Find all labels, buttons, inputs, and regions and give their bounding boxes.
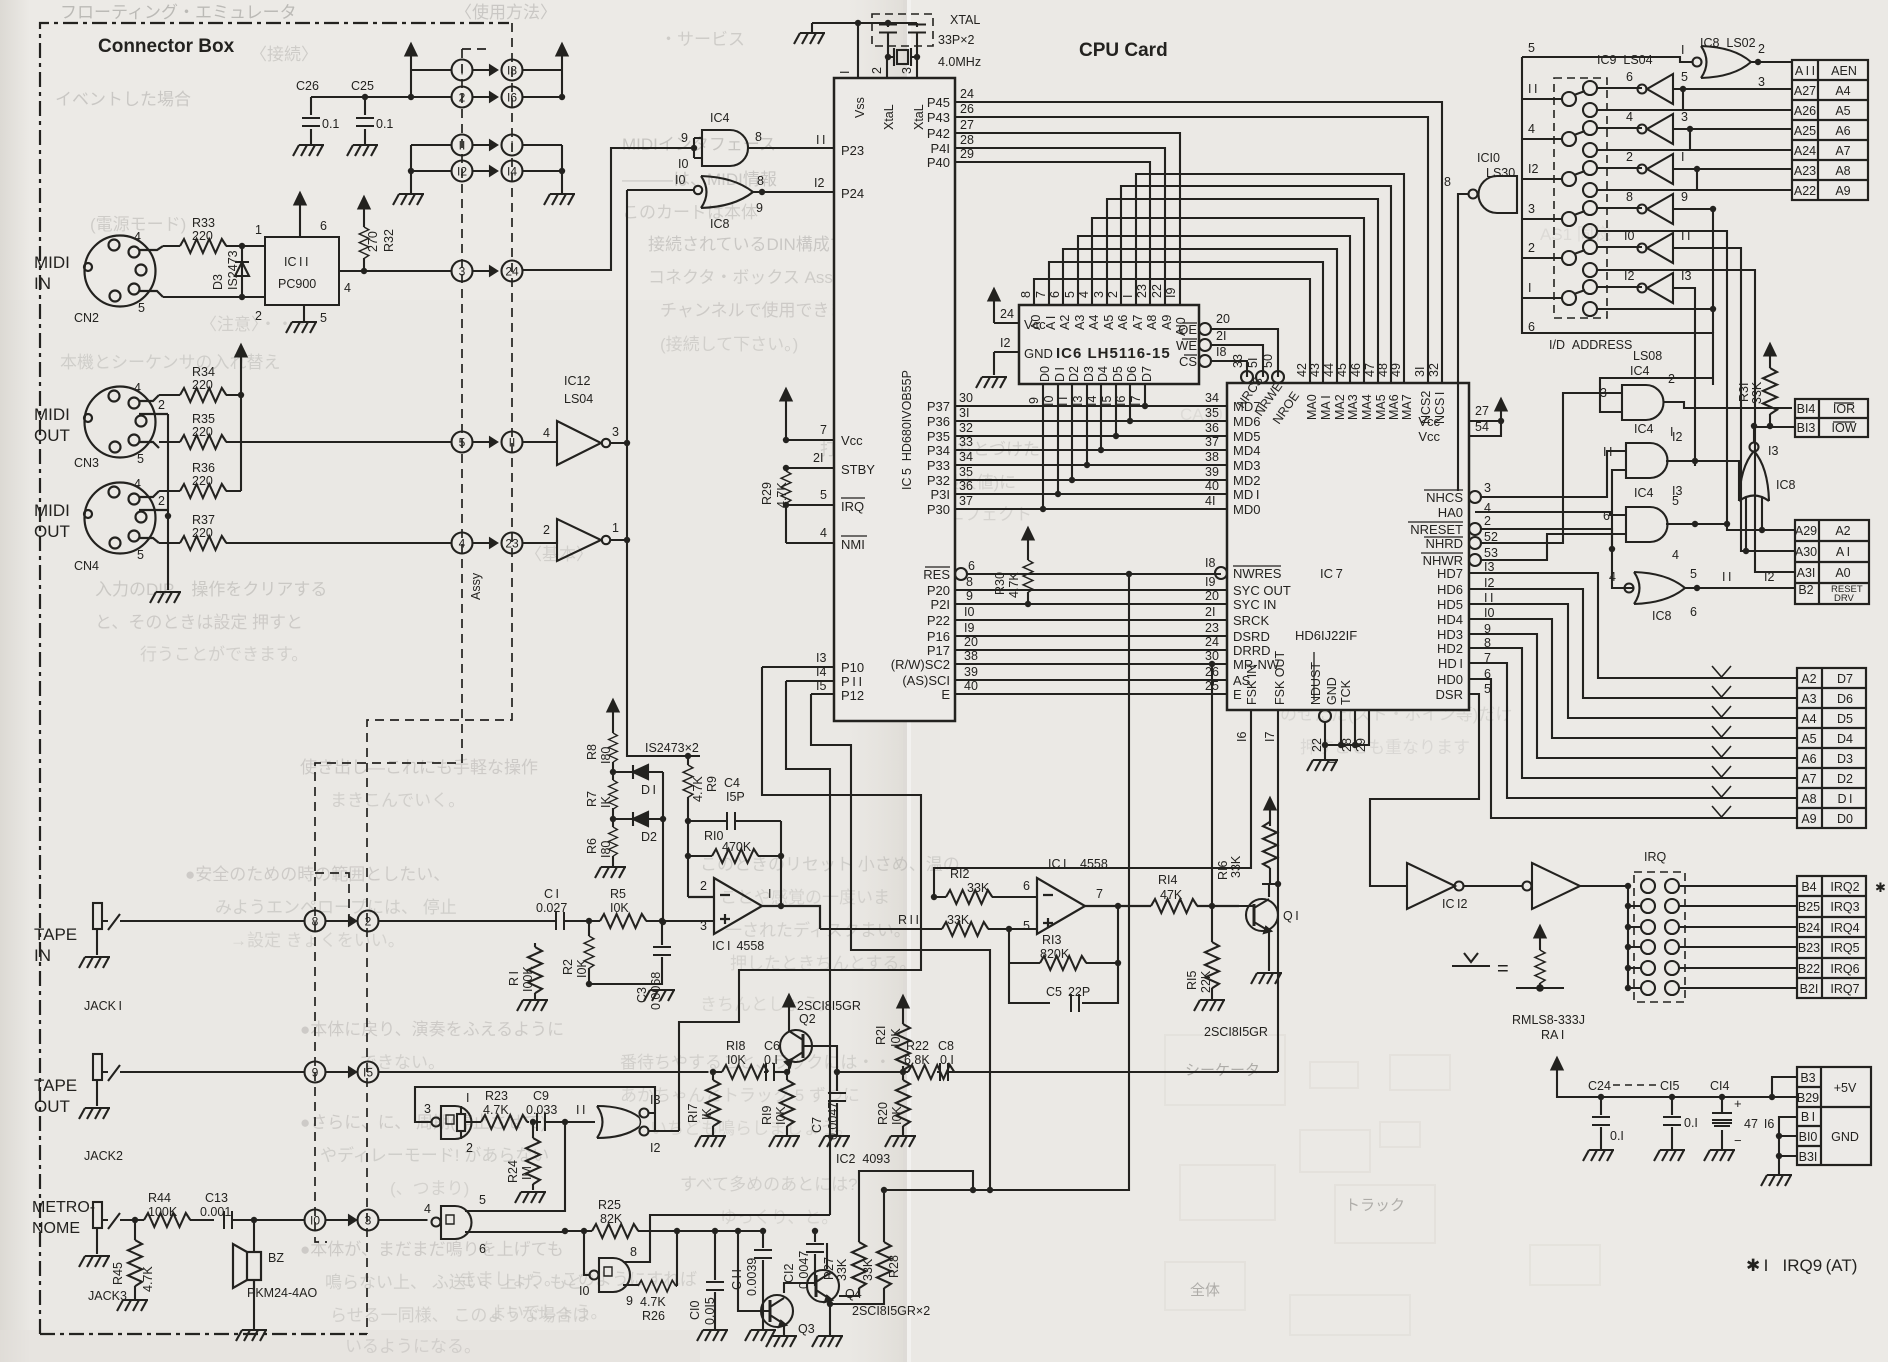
svg-text:3: 3 — [459, 265, 466, 279]
svg-text:33: 33 — [959, 435, 973, 449]
ground — [595, 867, 626, 878]
svg-text:6: 6 — [479, 1242, 486, 1256]
svg-text:NOME: NOME — [32, 1220, 80, 1237]
DIN connector CN4 — [84, 483, 168, 554]
svg-text:DRV: DRV — [1834, 593, 1855, 604]
pair 1-13 — [452, 60, 473, 81]
svg-text:30: 30 — [1205, 649, 1219, 663]
CN3/CN4 pin2 ground wire — [167, 414, 169, 590]
svg-text:P36: P36 — [927, 414, 950, 429]
svg-text:A4: A4 — [1087, 315, 1101, 330]
svg-text:47K: 47K — [1160, 888, 1183, 902]
svg-text:MD I: MD I — [1233, 487, 1259, 502]
svg-text:49: 49 — [1389, 363, 1403, 377]
svg-text:D7: D7 — [1140, 366, 1154, 382]
svg-text:HD5: HD5 — [1437, 597, 1463, 612]
svg-text:20: 20 — [1205, 589, 1219, 603]
svg-text:P45: P45 — [927, 95, 950, 110]
svg-text:OUT: OUT — [34, 522, 70, 541]
svg-text:イベントした場合: イベントした場合 — [55, 90, 191, 109]
svg-text:4: 4 — [344, 281, 351, 295]
svg-text:I3: I3 — [1768, 444, 1778, 458]
svg-text:9: 9 — [681, 131, 688, 145]
svg-text:フローティング・エミュレータ: フローティング・エミュレータ — [60, 3, 297, 22]
IC7 right pins — [1469, 491, 1481, 566]
svg-text:A6: A6 — [1801, 752, 1816, 766]
inverter outputs to table — [1673, 89, 1792, 551]
svg-text:SYC IN: SYC IN — [1233, 597, 1276, 612]
A29/A30/A31 row stubs — [1746, 530, 1795, 572]
svg-text:IOR: IOR — [1833, 402, 1855, 416]
svg-text:9: 9 — [1681, 190, 1688, 204]
svg-text:I: I — [1681, 43, 1684, 57]
table T3 — [1795, 520, 1869, 604]
svg-text:JACK2: JACK2 — [84, 1149, 123, 1163]
svg-text:2: 2 — [1668, 372, 1675, 386]
svg-text:I I: I I — [1056, 397, 1070, 406]
svg-text:A0: A0 — [1029, 315, 1043, 330]
svg-text:A7: A7 — [1801, 772, 1816, 786]
svg-text:39: 39 — [1205, 465, 1219, 479]
svg-text:470K: 470K — [722, 840, 752, 854]
svg-text:23: 23 — [1135, 284, 1149, 298]
svg-text:4.7K: 4.7K — [483, 1103, 509, 1117]
svg-text:IOW: IOW — [1832, 421, 1857, 435]
P42 -> A10 — [955, 133, 1180, 305]
IC7 top bubbles 33 51 50 — [1241, 371, 1284, 383]
svg-text:D0: D0 — [1038, 366, 1052, 382]
cpu bottom control pins — [891, 567, 951, 702]
svg-text:C26: C26 — [296, 79, 319, 93]
svg-text:3: 3 — [1681, 110, 1688, 124]
svg-text:FSK OUT: FSK OUT — [1273, 650, 1287, 705]
svg-text:R29: R29 — [760, 482, 774, 505]
svg-text:R23: R23 — [485, 1089, 508, 1103]
ground — [79, 1256, 110, 1267]
gate C pin5 riser to C9 node — [476, 1122, 565, 1211]
vcc arrow — [989, 289, 1000, 311]
svg-text:MIDI: MIDI — [34, 501, 70, 520]
svg-text:NHRD: NHRD — [1425, 536, 1463, 551]
svg-text:I2: I2 — [1672, 430, 1682, 444]
svg-text:2SCI8I5GR×2: 2SCI8I5GR×2 — [852, 1304, 930, 1318]
svg-text:47: 47 — [1363, 363, 1377, 377]
MD data lines — [955, 406, 1227, 509]
svg-text:4: 4 — [134, 477, 141, 491]
svg-text:E: E — [1233, 687, 1242, 702]
gate D — [590, 1258, 634, 1292]
IC12 inverter 1 — [557, 421, 610, 465]
svg-text:A6: A6 — [1116, 315, 1130, 330]
IC4 nand — [611, 130, 834, 166]
svg-text:I I: I I — [1484, 591, 1493, 605]
svg-text:0.001: 0.001 — [200, 1205, 231, 1219]
svg-text:R5: R5 — [610, 887, 626, 901]
svg-text:●安全のための時の範囲としたい、: ●安全のための時の範囲としたい、 — [185, 865, 450, 884]
svg-text:100K: 100K — [148, 1205, 178, 1219]
svg-text:I0K: I0K — [889, 1028, 903, 1047]
vcc arrow — [1265, 798, 1276, 820]
svg-text:B2I: B2I — [1800, 982, 1819, 996]
svg-text:まきこんでいく。: まきこんでいく。 — [330, 791, 465, 810]
junction dots on MD lines — [1040, 403, 1148, 512]
svg-text:IC6 LH5116-15: IC6 LH5116-15 — [1056, 345, 1171, 362]
svg-text:C I: C I — [544, 887, 559, 901]
svg-text:A I I: A I I — [1795, 64, 1815, 78]
IC11 pin5 gnd — [303, 305, 305, 322]
vcc arrow — [781, 389, 792, 411]
svg-text:A2: A2 — [1835, 524, 1850, 538]
svg-text:A26: A26 — [1794, 104, 1816, 118]
svg-text:2: 2 — [1758, 42, 1765, 56]
svg-text:I00K: I00K — [521, 966, 535, 992]
svg-text:I0: I0 — [678, 157, 688, 171]
svg-text:Connector Box: Connector Box — [98, 36, 235, 57]
svg-text:SYC OUT: SYC OUT — [1233, 583, 1291, 598]
svg-text:220: 220 — [192, 474, 213, 488]
svg-text:2SCI8I5GR: 2SCI8I5GR — [797, 999, 861, 1013]
svg-text:I I: I I — [576, 1103, 585, 1117]
svg-text:TAPE: TAPE — [34, 925, 77, 944]
svg-text:A8: A8 — [1145, 315, 1159, 330]
C24 — [1600, 1097, 1602, 1150]
svg-text:R44: R44 — [148, 1191, 171, 1205]
ground — [286, 322, 317, 333]
table T6 — [1797, 1067, 1871, 1165]
svg-text:5: 5 — [138, 301, 145, 315]
svg-text:R6: R6 — [585, 838, 599, 854]
svg-text:A5: A5 — [1801, 732, 1816, 746]
svg-text:MD2: MD2 — [1233, 473, 1260, 488]
svg-text:DSRD: DSRD — [1233, 629, 1270, 644]
svg-text:3: 3 — [700, 919, 707, 933]
svg-text:2I: 2I — [1216, 329, 1226, 343]
ghost rectangles bottom right (print-through) — [1165, 1035, 1600, 1335]
svg-text:A3: A3 — [1801, 692, 1816, 706]
svg-text:RI2: RI2 — [950, 867, 970, 881]
svg-text:P42: P42 — [927, 126, 950, 141]
IC6 data drops — [1043, 384, 1145, 509]
svg-text:●本体に戻り、演奏をふえるように: ●本体に戻り、演奏をふえるように — [300, 1020, 564, 1039]
NDUST/GND/TCK grounding — [1319, 710, 1369, 759]
svg-text:HD3: HD3 — [1437, 627, 1463, 642]
svg-text:R24: R24 — [506, 1160, 520, 1183]
svg-text:+5V: +5V — [1834, 1081, 1857, 1095]
svg-text:Q3: Q3 — [798, 1322, 815, 1336]
IC6 bottom pin labels D0-D7 — [1038, 366, 1154, 382]
address/control wiring CPU to IC6/IC7 — [955, 102, 1442, 694]
svg-text:A5: A5 — [1835, 104, 1850, 118]
svg-text:33K: 33K — [947, 913, 970, 927]
svg-text:D0: D0 — [1837, 812, 1853, 826]
svg-text:(、つまり): (、つまり) — [390, 1179, 469, 1198]
svg-text:44: 44 — [1322, 363, 1336, 377]
svg-text:D5: D5 — [1837, 712, 1853, 726]
svg-text:I9: I9 — [1205, 575, 1215, 589]
svg-text:R I I: R I I — [898, 913, 919, 927]
pair 4-23 — [452, 533, 473, 554]
svg-text:B29: B29 — [1797, 1091, 1819, 1105]
R17 1K — [712, 1072, 714, 1136]
svg-text:IC 5 HD680IVOB55P: IC 5 HD680IVOB55P — [900, 370, 914, 490]
svg-text:NMI: NMI — [841, 537, 865, 552]
svg-text:IC9 LS04: IC9 LS04 — [1597, 53, 1653, 67]
svg-text:I: I — [1121, 295, 1135, 298]
C7 0.0047 — [836, 1072, 838, 1136]
jack2 — [93, 1054, 120, 1081]
svg-text:D2: D2 — [1837, 772, 1853, 786]
svg-text:接続されているDIN構成する: 接続されているDIN構成する — [648, 235, 864, 254]
svg-text:2: 2 — [459, 91, 466, 105]
svg-text:I7: I7 — [1263, 732, 1277, 742]
svg-text:I0: I0 — [1042, 396, 1056, 406]
LS02 nor gate top — [1522, 46, 1792, 78]
svg-text:9: 9 — [312, 1066, 319, 1080]
svg-text:MA5: MA5 — [1374, 394, 1388, 420]
svg-text:A0: A0 — [1835, 566, 1850, 580]
inv2 output right — [610, 539, 627, 541]
svg-text:D6: D6 — [1125, 366, 1139, 382]
svg-text:5: 5 — [1063, 291, 1077, 298]
svg-text:0.I: 0.I — [1684, 1116, 1698, 1130]
svg-text:IM: IM — [520, 1166, 534, 1180]
svg-text:IRQ7: IRQ7 — [1830, 982, 1859, 996]
svg-text:WE: WE — [1176, 338, 1197, 353]
svg-text:4: 4 — [459, 537, 466, 551]
svg-text:4: 4 — [1626, 110, 1633, 124]
svg-text:I3: I3 — [1681, 269, 1691, 283]
svg-text:A4: A4 — [1835, 84, 1850, 98]
svg-text:✱ I IRQ9 (AT): ✱ I IRQ9 (AT) — [1746, 1256, 1857, 1275]
svg-text:MA0: MA0 — [1305, 394, 1319, 420]
svg-text:CI0: CI0 — [688, 1301, 702, 1321]
svg-text:MD6: MD6 — [1233, 414, 1260, 429]
C14 electrolytic — [1721, 1097, 1723, 1150]
IC12 inverter 2 — [557, 519, 610, 561]
svg-text:CS: CS — [1179, 354, 1197, 369]
svg-text:→設定 きょくをいい。: →設定 きょくをいい。 — [230, 931, 405, 950]
R36 wire CN4 pin4 — [159, 490, 241, 492]
svg-text:28: 28 — [960, 133, 974, 147]
R45 4.7K to gnd — [134, 1220, 136, 1300]
A0..A7 -> MA0..MA7 — [1034, 279, 1310, 383]
ground — [517, 1000, 548, 1011]
svg-text:3: 3 — [1600, 386, 1607, 400]
svg-text:P16: P16 — [927, 629, 950, 644]
svg-text:I I: I I — [816, 133, 825, 147]
svg-text:9: 9 — [1027, 397, 1041, 404]
svg-text:2: 2 — [1484, 514, 1491, 528]
svg-text:C7: C7 — [810, 1117, 824, 1133]
svg-text:43: 43 — [1308, 363, 1322, 377]
svg-text:XtaL: XtaL — [912, 104, 926, 130]
svg-text:OE: OE — [1178, 322, 1197, 337]
svg-text:33K: 33K — [1750, 381, 1764, 404]
SC2 line drop to Q1 base node — [1209, 661, 1215, 667]
svg-text:R3I: R3I — [1737, 383, 1751, 402]
svg-text:8: 8 — [757, 174, 764, 188]
svg-text:P4I: P4I — [930, 141, 950, 156]
svg-text:2: 2 — [1106, 291, 1120, 298]
P45 -> NCS1 — [955, 102, 1442, 383]
svg-text:R36: R36 — [192, 461, 215, 475]
svg-text:6: 6 — [1048, 291, 1062, 298]
svg-text:38: 38 — [964, 649, 978, 663]
svg-text:CI2: CI2 — [782, 1264, 796, 1284]
svg-text:9: 9 — [756, 201, 763, 215]
table T2 IOR IOW — [1795, 399, 1868, 437]
svg-text:0.I: 0.I — [1610, 1129, 1624, 1143]
svg-text:I2: I2 — [457, 165, 467, 179]
vcc arrow — [236, 345, 247, 367]
svg-text:MA2: MA2 — [1333, 394, 1347, 420]
svg-text:IK: IK — [700, 1108, 714, 1120]
C25 — [364, 97, 366, 145]
svg-text:XTAL: XTAL — [950, 13, 980, 27]
R18 10K — [713, 1071, 768, 1073]
svg-text:HD7: HD7 — [1437, 566, 1463, 581]
svg-text:8: 8 — [312, 915, 319, 929]
ground — [79, 957, 110, 968]
svg-text:8: 8 — [1444, 175, 1451, 189]
svg-text:I0K: I0K — [575, 959, 589, 978]
metronome line R44 C13 — [120, 1219, 305, 1221]
ch1 — [1562, 92, 1576, 106]
svg-text:D3: D3 — [1837, 752, 1853, 766]
svg-text:DRRD: DRRD — [1233, 643, 1271, 658]
svg-text:AS1 同様: AS1 同様 — [1540, 225, 1611, 244]
svg-text:NDUST: NDUST — [1309, 662, 1323, 705]
svg-text:4.7K: 4.7K — [691, 776, 705, 802]
svg-text:D6: D6 — [1837, 692, 1853, 706]
vcc arrow — [295, 193, 306, 215]
svg-text:5: 5 — [1528, 41, 1535, 55]
svg-text:C8: C8 — [938, 1039, 954, 1053]
control lines CPU to IC7 — [955, 574, 1227, 694]
svg-text:I3: I3 — [650, 1093, 660, 1107]
svg-text:A3I: A3I — [1797, 566, 1816, 580]
bottom IC8 nor — [1481, 529, 1795, 604]
svg-text:MA6: MA6 — [1387, 394, 1401, 420]
svg-text:P33: P33 — [927, 458, 950, 473]
svg-text:HA0: HA0 — [1438, 505, 1463, 520]
C3 0.0068 — [659, 918, 665, 924]
svg-text:HD6: HD6 — [1437, 582, 1463, 597]
R1 100K — [534, 943, 536, 1000]
svg-text:IRQ3: IRQ3 — [1830, 900, 1859, 914]
C6 0.1 — [766, 1063, 774, 1081]
svg-text:33K: 33K — [861, 1258, 875, 1281]
LS08 AND gate 1 — [1481, 378, 1792, 543]
svg-text:I0: I0 — [579, 1284, 589, 1298]
svg-text:I: I — [838, 71, 852, 74]
R14 47K — [1151, 899, 1197, 913]
svg-text:I7: I7 — [1129, 396, 1143, 406]
svg-text:D2: D2 — [1067, 366, 1081, 382]
svg-text:STBY: STBY — [841, 462, 875, 477]
svg-text:8: 8 — [630, 1245, 637, 1259]
svg-text:R35: R35 — [192, 412, 215, 426]
svg-text:Vcc: Vcc — [1418, 429, 1440, 444]
C10 0.015 — [714, 1231, 716, 1330]
R32 270 pullup — [363, 219, 365, 271]
svg-text:6: 6 — [1528, 320, 1535, 334]
svg-text:4I: 4I — [1205, 494, 1215, 508]
svg-text:4: 4 — [424, 1202, 431, 1216]
svg-text:23: 23 — [1205, 621, 1219, 635]
svg-text:I I: I I — [1722, 570, 1731, 584]
svg-text:5: 5 — [820, 488, 827, 502]
svg-text:P3I: P3I — [930, 487, 950, 502]
R34 wire CN3 pin4 — [159, 394, 241, 396]
svg-text:R45: R45 — [111, 1262, 125, 1285]
svg-text:P2I: P2I — [930, 597, 950, 612]
vcc arrow — [784, 995, 795, 1017]
svg-text:I/D ADDRESS: I/D ADDRESS — [1549, 338, 1632, 352]
svg-text:R20: R20 — [876, 1102, 890, 1125]
svg-text:A I: A I — [1836, 545, 1850, 559]
svg-text:B2: B2 — [1798, 583, 1813, 597]
svg-text:IRQ4: IRQ4 — [1830, 921, 1859, 935]
svg-text:P12: P12 — [841, 688, 864, 703]
IC6 top pin labels A0-A10 — [1019, 284, 1178, 298]
svg-text:CN3: CN3 — [74, 456, 99, 470]
svg-text:R26: R26 — [642, 1309, 665, 1323]
C26 — [310, 97, 312, 145]
svg-text:D5: D5 — [1111, 366, 1125, 382]
R20 10K — [900, 1069, 906, 1075]
svg-text:I2: I2 — [1484, 576, 1494, 590]
svg-text:2: 2 — [700, 879, 707, 893]
svg-text:P10: P10 — [841, 660, 864, 675]
svg-text:Vss: Vss — [853, 97, 867, 118]
svg-text:I: I — [510, 139, 513, 153]
svg-text:OUT: OUT — [34, 1097, 70, 1116]
svg-text:よいでしょう。: よいでしょう。 — [490, 1303, 607, 1322]
assy boundary dashed lines — [315, 23, 512, 1334]
ground — [1307, 760, 1338, 771]
vcc arrow — [557, 44, 568, 66]
jack1 — [93, 903, 120, 930]
svg-text:I5P: I5P — [726, 790, 745, 804]
svg-text:HD2: HD2 — [1437, 641, 1463, 656]
gate B input 12 riser to SC1 line — [649, 1130, 679, 1132]
vertical from IC8 input down to audio node — [627, 190, 676, 756]
svg-text:BI4: BI4 — [1797, 402, 1816, 416]
svg-text:CI5: CI5 — [1660, 1079, 1680, 1093]
svg-text:IC12: IC12 — [564, 374, 590, 388]
svg-text:2I: 2I — [813, 451, 823, 465]
svg-text:I I: I I — [1603, 445, 1612, 459]
svg-text:46: 46 — [1349, 363, 1363, 377]
svg-text:A9: A9 — [1835, 184, 1850, 198]
svg-text:40: 40 — [964, 679, 978, 693]
svg-text:24: 24 — [1205, 635, 1219, 649]
feedback R13 820K + C5 — [1006, 926, 1012, 932]
svg-text:I5: I5 — [1100, 396, 1114, 406]
svg-text:P22: P22 — [927, 613, 950, 628]
svg-text:I2: I2 — [1000, 336, 1010, 350]
svg-text:9: 9 — [966, 589, 973, 603]
svg-text:I3: I3 — [507, 64, 517, 78]
IC7 left pin labels MD7..MD0 — [1233, 399, 1260, 517]
vertical IC8 nor gate — [1739, 426, 1769, 551]
svg-text:5: 5 — [459, 436, 466, 450]
svg-text:シーケータ: シーケータ — [1185, 1062, 1260, 1079]
svg-text:NWRES: NWRES — [1233, 566, 1282, 581]
svg-text:FSK IN: FSK IN — [1245, 665, 1259, 705]
svg-text:R33: R33 — [192, 216, 215, 230]
